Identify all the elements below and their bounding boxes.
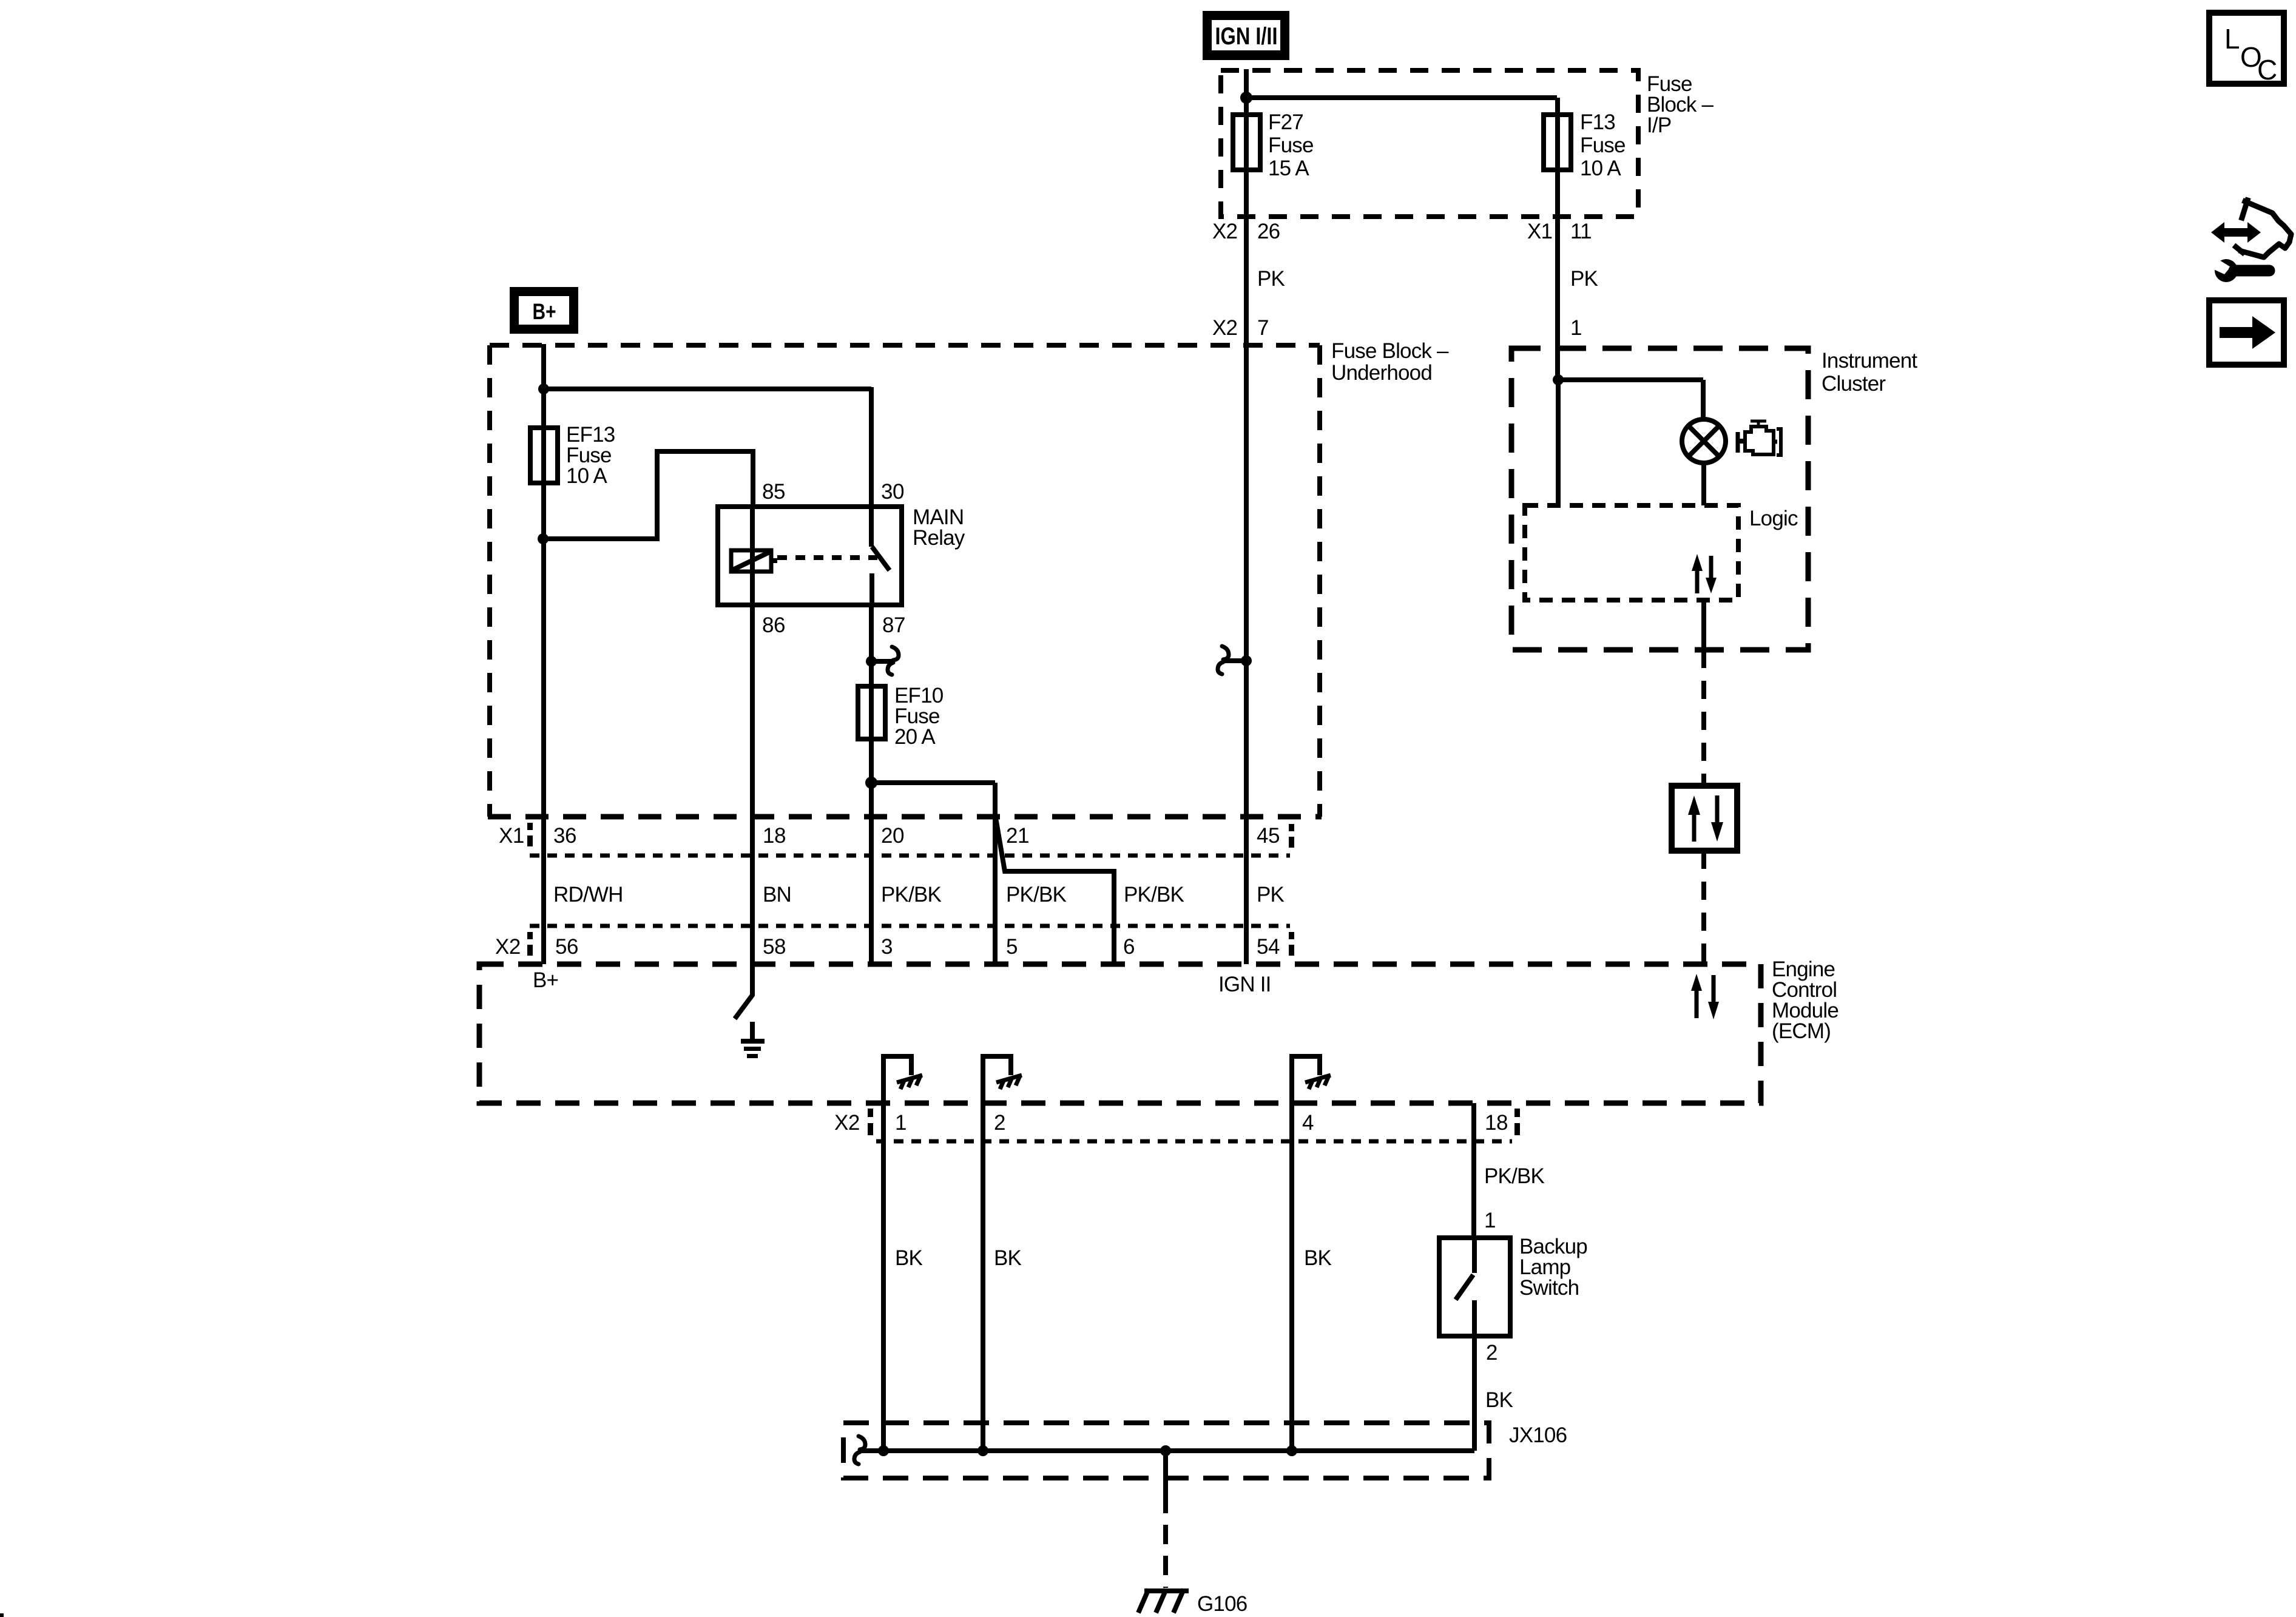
svg-text:PK: PK — [1257, 883, 1285, 906]
svg-text:20 A: 20 A — [894, 725, 936, 749]
svg-text:4: 4 — [1302, 1111, 1314, 1135]
svg-text:BK: BK — [1485, 1388, 1513, 1412]
svg-text:10 A: 10 A — [566, 464, 607, 488]
svg-text:C: C — [2257, 54, 2277, 86]
svg-text:7: 7 — [1257, 316, 1269, 340]
svg-text:1: 1 — [1570, 316, 1582, 340]
svg-text:58: 58 — [763, 935, 786, 959]
svg-text:IGN II: IGN II — [1218, 973, 1271, 996]
svg-text:JX106: JX106 — [1509, 1423, 1567, 1447]
svg-text:2: 2 — [994, 1111, 1005, 1135]
svg-text:F13: F13 — [1580, 110, 1615, 134]
svg-text:5: 5 — [1006, 935, 1018, 959]
svg-text:PK/BK: PK/BK — [881, 883, 942, 906]
svg-text:Cluster: Cluster — [1822, 372, 1886, 396]
svg-text:PK: PK — [1570, 267, 1598, 291]
svg-text:(ECM): (ECM) — [1772, 1019, 1831, 1043]
svg-text:IGN I/II: IGN I/II — [1215, 23, 1278, 50]
svg-text:PK/BK: PK/BK — [1484, 1164, 1545, 1188]
svg-text:I/P: I/P — [1647, 113, 1671, 137]
svg-text:X1: X1 — [1527, 220, 1552, 243]
svg-text:BK: BK — [994, 1246, 1022, 1270]
svg-text:RD/WH: RD/WH — [553, 883, 623, 906]
svg-text:86: 86 — [762, 613, 785, 637]
svg-text:BK: BK — [895, 1246, 923, 1270]
svg-text:36: 36 — [553, 824, 576, 848]
svg-text:54: 54 — [1257, 935, 1280, 959]
svg-text:15 A: 15 A — [1268, 157, 1309, 180]
svg-text:2: 2 — [1486, 1341, 1497, 1365]
svg-text:11: 11 — [1570, 220, 1592, 243]
svg-text:Underhood: Underhood — [1331, 361, 1432, 385]
svg-text:85: 85 — [762, 480, 785, 504]
svg-text:PK: PK — [1257, 267, 1285, 291]
svg-text:56: 56 — [555, 935, 578, 959]
svg-text:B+: B+ — [533, 968, 558, 992]
svg-text:Fuse: Fuse — [1268, 133, 1314, 157]
svg-text:30: 30 — [881, 480, 904, 504]
svg-text:PK/BK: PK/BK — [1124, 883, 1184, 906]
svg-text:X2: X2 — [495, 935, 521, 959]
svg-text:Fuse: Fuse — [1580, 133, 1626, 157]
svg-text:Relay: Relay — [913, 526, 965, 550]
svg-text:20: 20 — [881, 824, 904, 848]
svg-text:10 A: 10 A — [1580, 157, 1621, 180]
svg-text:B+: B+ — [533, 299, 556, 324]
svg-text:21: 21 — [1006, 824, 1029, 848]
svg-text:6: 6 — [1123, 935, 1135, 959]
svg-text:3: 3 — [881, 935, 893, 959]
svg-text:Logic: Logic — [1749, 507, 1798, 530]
svg-text:18: 18 — [763, 824, 786, 848]
svg-text:Switch: Switch — [1519, 1276, 1579, 1300]
svg-text:L: L — [2224, 23, 2240, 55]
svg-text:F27: F27 — [1268, 110, 1303, 134]
svg-text:1: 1 — [1484, 1209, 1496, 1232]
svg-text:45: 45 — [1257, 824, 1280, 848]
svg-text:Instrument: Instrument — [1822, 349, 1917, 373]
svg-text:X2: X2 — [1212, 316, 1237, 340]
svg-text:PK/BK: PK/BK — [1006, 883, 1067, 906]
svg-text:X2: X2 — [834, 1111, 860, 1135]
svg-text:87: 87 — [882, 613, 905, 637]
svg-text:X1: X1 — [499, 824, 524, 848]
svg-text:Fuse Block –: Fuse Block – — [1331, 339, 1449, 363]
svg-text:X2: X2 — [1212, 220, 1237, 243]
svg-text:BN: BN — [763, 883, 791, 906]
svg-text:18: 18 — [1485, 1111, 1508, 1135]
svg-text:BK: BK — [1304, 1246, 1332, 1270]
svg-text:26: 26 — [1257, 220, 1280, 243]
svg-text:G106: G106 — [1197, 1592, 1247, 1616]
svg-text:1: 1 — [895, 1111, 907, 1135]
